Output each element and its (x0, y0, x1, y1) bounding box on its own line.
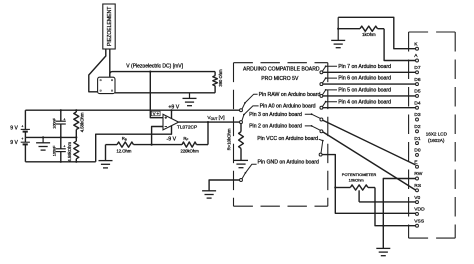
LCD pin D5 (414, 89, 421, 98)
wire feedback from output (207, 122, 209, 145)
node junction (75, 136, 77, 138)
op-amp U1 TL072CP (163, 114, 197, 130)
resistor RB 12.Ohm (106, 136, 152, 154)
switch Pin 7 on Arduino board (320, 64, 391, 74)
wire pin 7 to LCD (323, 71, 416, 73)
ground piezo return (183, 93, 197, 106)
LCD pin D2 (414, 124, 421, 133)
node junction (75, 109, 77, 111)
svg-text:RW: RW (414, 171, 422, 177)
svg-text:Pin A0 on Arduino board: Pin A0 on Arduino board (260, 103, 316, 109)
svg-text:12.Ohm: 12.Ohm (116, 149, 131, 154)
svg-text:D6: D6 (414, 77, 421, 83)
resistor 1kOhm backlight (338, 26, 384, 37)
node piezo signal junction (149, 71, 151, 73)
svg-text:4.58kOhm: 4.58kOhm (67, 141, 72, 161)
LCD pin D4 (414, 100, 421, 109)
switch Pin 3 on Arduino board (249, 112, 323, 121)
node V+ pin on rail (170, 109, 172, 111)
svg-text:Pin 2 on Arduino board: Pin 2 on Arduino board (249, 124, 302, 130)
svg-text:16X2 LCD: 16X2 LCD (426, 131, 448, 136)
wire pot right to LCD VSS (375, 188, 416, 226)
LCD 16X2 dashed box (409, 32, 456, 238)
ground battery midpoint (36, 137, 50, 150)
svg-text:POTENTIOMETER: POTENTIOMETER (342, 172, 377, 177)
resistor RF 220kOhm (152, 136, 208, 154)
svg-text:Pin RAW on Arduino board: Pin RAW on Arduino board (259, 92, 321, 98)
svg-text:Pin 4 on Arduino board: Pin 4 on Arduino board (338, 99, 391, 105)
wire mid rail 0V (25, 136, 76, 138)
ground Pin GND (202, 190, 216, 192)
resistor R 10kOhm to ground (227, 124, 244, 161)
piezo disc sensor (98, 77, 115, 93)
LCD pin V0 (414, 195, 420, 204)
capacitor C2 100nF (53, 137, 66, 161)
ground LCD VSS/RW (376, 247, 390, 249)
LCD pin D6 (414, 77, 421, 86)
label 16X2 LCD (1602A) (426, 131, 448, 142)
wire 1kOhm to LCD A (384, 29, 415, 61)
net label V+ box (151, 111, 160, 116)
svg-text:VSS: VSS (414, 218, 425, 224)
wire +9V rail (25, 109, 239, 111)
node VSS ground junction (382, 225, 384, 227)
LCD pin K (414, 41, 418, 50)
svg-text:TL072CP: TL072CP (177, 125, 197, 131)
wire -9V feed to op-amp (96, 125, 172, 161)
svg-text:+: + (63, 117, 65, 121)
label PRO MICRO 5V (261, 76, 299, 82)
ground LCD backlight (331, 17, 345, 47)
node junction (60, 136, 62, 138)
label V (Piezoelectric DC) [mV] (126, 63, 183, 69)
switch Pin VCC on Arduino board (257, 136, 323, 156)
svg-text:D5: D5 (414, 89, 421, 95)
switch Pin GND on Arduino board (240, 160, 319, 182)
svg-text:Pin 5 on Arduino board: Pin 5 on Arduino board (338, 88, 391, 94)
wire LCD RW to ground (383, 179, 415, 249)
wire piezo signal to op-amp + input (150, 72, 163, 118)
wire piezo right lead (109, 49, 111, 79)
LCD pin E (414, 159, 418, 168)
LCD pin A (414, 53, 418, 62)
resistor R2 4.58kOhm (67, 137, 79, 161)
svg-text:D4: D4 (414, 100, 421, 106)
wire pin 6 to LCD (323, 83, 416, 85)
label Vout [V] (207, 115, 224, 121)
wire pin 3 to LCD E (323, 120, 416, 165)
svg-text:9 V: 9 V (10, 140, 18, 146)
wire pot wiper to LCD V0 (359, 201, 415, 203)
svg-text:ARDUINO COMPATIBLE BOARD: ARDUINO COMPATIBLE BOARD (243, 67, 320, 73)
svg-text:(1602A): (1602A) (428, 138, 445, 143)
LCD pin D3 (414, 112, 421, 121)
LCD pin VSS (414, 218, 425, 227)
svg-text:-9 V: -9 V (167, 136, 177, 142)
ground RB (99, 145, 113, 168)
switch Pin 6 on Arduino board (320, 76, 391, 86)
wire pin 5 to LCD (323, 95, 416, 97)
LCD pin D0 (414, 148, 421, 157)
wire ground to LCD K (338, 17, 415, 48)
svg-text:10kOhm: 10kOhm (349, 177, 365, 182)
arduino board dashed box (234, 63, 328, 207)
svg-text:4.58kOhm: 4.58kOhm (79, 112, 84, 132)
switch Pin 2 on Arduino board (249, 124, 323, 133)
wire op-amp output Vout (179, 121, 240, 123)
node junction (75, 161, 77, 163)
wire op-amp V+ pin (171, 110, 173, 118)
LCD pin VDD (414, 207, 425, 216)
switch Pin A0 on Arduino board (240, 103, 316, 123)
wire VCC to pot and LCD VDD (322, 155, 415, 214)
svg-text:Pin 3 on Arduino board: Pin 3 on Arduino board (249, 112, 302, 118)
battery B1 9V (10, 110, 30, 137)
svg-text:Pin VCC on Arduino board: Pin VCC on Arduino board (257, 136, 318, 142)
svg-text:RS: RS (414, 183, 422, 189)
label -9 V (167, 136, 177, 142)
node backlight resistor tap (337, 28, 339, 30)
svg-text:1kOhm: 1kOhm (362, 32, 376, 37)
label ARDUINO COMPATIBLE BOARD (243, 67, 320, 73)
svg-text:+: + (21, 137, 23, 141)
svg-text:V0: V0 (414, 195, 420, 201)
ground R 10kOhm (234, 159, 248, 161)
svg-text:D2: D2 (414, 124, 421, 130)
svg-text:D3: D3 (414, 112, 421, 118)
wire pin 2 to LCD RS (323, 132, 416, 190)
svg-text:D1: D1 (414, 136, 421, 142)
resistor R1 4.58kOhm (74, 110, 85, 137)
svg-text:+: + (21, 124, 23, 128)
battery B2 9V (10, 137, 30, 162)
wire bottom rail -9V (25, 161, 95, 163)
node feedback tap (207, 121, 209, 123)
svg-text:220kOhm: 220kOhm (181, 149, 200, 154)
svg-text:D0: D0 (414, 148, 421, 154)
svg-text:100nF: 100nF (53, 145, 57, 156)
resistor 390 Ohm (213, 69, 223, 93)
node VCC pot-left junction (334, 186, 336, 188)
svg-text:Pin GND on Arduino board: Pin GND on Arduino board (258, 160, 320, 166)
wire piezo signal top (V piezoelectric) (110, 72, 215, 76)
LCD pin RW (414, 171, 422, 180)
svg-text:PIEZOELEMENT: PIEZOELEMENT (107, 7, 113, 46)
svg-text:100nF: 100nF (53, 117, 57, 128)
svg-text:R=10kOhm: R=10kOhm (227, 128, 232, 150)
wire piezo bottom return (115, 92, 215, 94)
svg-text:VDD: VDD (414, 207, 425, 213)
svg-text:D7: D7 (414, 65, 421, 71)
svg-text:+9 V: +9 V (168, 104, 179, 110)
node junction (60, 109, 62, 111)
wire op-amp inverting input (152, 127, 163, 145)
node battery midpoint (42, 136, 44, 138)
switch Pin 4 on Arduino board (320, 99, 391, 109)
label +9 V (168, 104, 179, 110)
capacitor C1 100nF (53, 110, 66, 137)
LCD pin RS (414, 183, 422, 192)
node junction (60, 161, 62, 163)
svg-text:Pin 7 on Arduino board: Pin 7 on Arduino board (338, 64, 391, 70)
svg-text:Pin 6 on Arduino board: Pin 6 on Arduino board (338, 76, 391, 82)
switch Pin RAW on Arduino board (240, 92, 321, 112)
svg-text:9 V: 9 V (10, 126, 18, 132)
wire Pin GND to ground (209, 180, 239, 191)
piezo element PIEZOELEMENT (103, 4, 115, 49)
switch Pin 5 on Arduino board (320, 88, 391, 98)
svg-text:V (Piezoelectric DC) [mV]: V (Piezoelectric DC) [mV] (126, 63, 183, 69)
LCD pin D7 (414, 65, 421, 74)
LCD pin D1 (414, 136, 421, 145)
svg-text:PRO MICRO 5V: PRO MICRO 5V (261, 76, 299, 82)
node inverting input junction (151, 144, 153, 146)
potentiometer 10kOhm (335, 172, 376, 202)
wire piezo left lead (89, 49, 106, 92)
svg-text:390 Ohm: 390 Ohm (218, 69, 223, 87)
wire pin 4 to LCD (323, 107, 416, 109)
svg-text:+: + (63, 145, 65, 149)
